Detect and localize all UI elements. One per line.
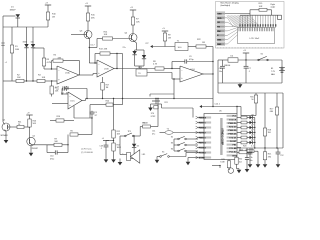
wire U2 out	[117, 68, 155, 70]
capacitor C18 .1	[104, 144, 109, 146]
resistor R27 56K	[54, 143, 62, 146]
transistor Q4 PN2222	[129, 34, 137, 42]
svg-text:102: 102	[239, 161, 242, 163]
wire gnd pin	[188, 157, 198, 159]
connector labels	[217, 12, 225, 15]
svg-text:390: 390	[268, 132, 271, 134]
LED D11	[250, 131, 253, 134]
svg-text:C6: C6	[219, 68, 221, 70]
svg-text:C5: C5	[95, 112, 97, 114]
svg-text:Right: Right	[271, 3, 276, 6]
svg-text:4.7: 4.7	[56, 89, 59, 91]
svg-text:1M: 1M	[106, 87, 109, 89]
diode D6	[135, 49, 137, 51]
svg-text:102: 102	[248, 154, 251, 156]
ground Q2	[30, 146, 32, 152]
svg-text:RXD.D0: RXD.D0	[229, 127, 237, 129]
wire U4 out	[203, 73, 213, 75]
svg-text:(2) CD4040B: (2) CD4040B	[81, 152, 93, 154]
svg-text:R29: R29	[221, 159, 224, 161]
wire	[122, 54, 124, 99]
svg-text:+1: +1	[5, 62, 7, 64]
svg-text:RW: RW	[217, 31, 220, 33]
wire U1 output	[79, 74, 93, 76]
wire Q4 emitter	[134, 41, 136, 43]
svg-text:C7: C7	[248, 68, 250, 70]
svg-text:U1.7: U1.7	[91, 44, 95, 46]
svg-text:PB6.X1: PB6.X1	[199, 137, 207, 139]
battery B1 7.2V	[281, 66, 283, 69]
transistor Q2 2N5087	[27, 137, 35, 145]
svg-text:R21: R21	[165, 102, 168, 104]
capacitor C4 .01	[66, 86, 68, 87]
LED D10	[250, 126, 253, 129]
svg-text:1N34: 1N34	[23, 42, 27, 44]
resistor R12 10K	[113, 99, 115, 131]
power +9	[130, 9, 136, 11]
wire Q3 emitter	[88, 38, 90, 63]
wire	[147, 72, 172, 74]
svg-text:C12: C12	[280, 155, 283, 157]
resistor R21 390	[264, 148, 266, 152]
resistor LED row 6	[241, 141, 247, 144]
power +9	[85, 5, 91, 7]
resistor LED row 5	[241, 136, 247, 139]
svg-text:R20: R20	[243, 146, 246, 148]
svg-text:4.7M: 4.7M	[47, 62, 52, 64]
wire	[2, 16, 4, 27]
svg-text:.1: .1	[248, 71, 250, 73]
transistor Q3 PN2222	[84, 31, 92, 39]
svg-text:T6: T6	[138, 73, 140, 75]
svg-text:U1:A: U1:A	[65, 72, 70, 75]
ground	[237, 168, 240, 170]
crystal Y1 box	[175, 43, 188, 51]
resistor R17 680	[276, 93, 278, 107]
dashed bottom	[217, 47, 283, 49]
svg-text:VO: VO	[217, 22, 220, 24]
capacitor C13 4.7	[62, 93, 68, 95]
svg-text:R15: R15	[250, 96, 253, 98]
svg-text:680: 680	[270, 111, 273, 113]
svg-text:MPSA18: MPSA18	[1, 134, 8, 137]
resistor R20 5.1	[240, 150, 246, 152]
svg-text:U1:B: U1:B	[104, 68, 109, 70]
wire +5 rail	[217, 83, 219, 93]
wire	[34, 144, 55, 146]
ground	[105, 158, 107, 159]
wire U3 bottom	[73, 106, 75, 118]
svg-text:AGND: AGND	[199, 156, 206, 159]
resistor R1 10M	[11, 27, 13, 45]
resistor R10 1M	[46, 12, 49, 20]
svg-text:R13: R13	[117, 144, 120, 146]
power +9 tap	[243, 52, 249, 54]
transistor Q1 MPSA18	[2, 123, 10, 131]
transistor Q5	[228, 168, 233, 173]
svg-text:1M: 1M	[202, 42, 205, 44]
svg-text:R24: R24	[106, 101, 109, 103]
ribbon cable hatch	[227, 15, 237, 26]
svg-text:S3: S3	[171, 142, 173, 144]
resistor R17 1M vertical	[102, 77, 104, 83]
GM tube sensor	[2, 27, 4, 81]
svg-text:(backlight): (backlight)	[221, 4, 231, 7]
wire to MCU	[162, 107, 194, 109]
svg-text:2N5087: 2N5087	[32, 148, 38, 150]
svg-text:R23: R23	[239, 149, 242, 151]
svg-text:10u: 10u	[219, 71, 222, 73]
svg-text:B1: B1	[271, 68, 273, 70]
svg-text:+: +	[122, 153, 123, 155]
resistor R24 10K	[90, 104, 106, 106]
svg-text:1M: 1M	[168, 37, 171, 39]
capacitor C5 4.7	[91, 111, 93, 112]
svg-text:470u: 470u	[50, 159, 54, 161]
svg-text:10R: 10R	[259, 6, 263, 8]
wire pin header rail	[240, 14, 282, 16]
svg-text:D2.INT: D2.INT	[230, 141, 237, 143]
svg-text:R17: R17	[270, 108, 273, 110]
svg-text:PC2.A2: PC2.A2	[229, 147, 237, 150]
op-amp U1:C	[68, 92, 82, 109]
LED D9	[250, 121, 253, 124]
resistor R9 1M	[163, 33, 166, 41]
svg-text:VDD: VDD	[217, 18, 222, 20]
svg-text:PC1/A1: PC1/A1	[199, 151, 207, 154]
svg-text:C27: C27	[145, 43, 148, 45]
power tap	[155, 98, 156, 99]
svg-text:R2 1K: R2 1K	[143, 123, 149, 125]
svg-text:New Haven Display: New Haven Display	[221, 2, 240, 4]
svg-text:390: 390	[268, 156, 271, 158]
resistor R28	[70, 133, 78, 136]
wire bottom rail	[234, 147, 283, 149]
svg-text:angle: angle	[271, 6, 276, 8]
svg-text:100K: 100K	[117, 147, 122, 149]
switch S1	[258, 59, 260, 61]
resistor R22 1M	[188, 46, 196, 48]
wire	[172, 78, 180, 80]
svg-text:TP1: TP1	[128, 131, 131, 133]
svg-text:R17: R17	[106, 84, 109, 86]
svg-text:C13: C13	[55, 86, 58, 88]
wire U3 out long rail	[82, 100, 86, 102]
wire U3 +in	[52, 102, 68, 104]
power +9	[26, 114, 32, 116]
LCD module enclosure	[216, 2, 285, 49]
svg-text:Q2: Q2	[32, 136, 35, 138]
svg-text:PWM.D5: PWM.D5	[228, 130, 237, 132]
resistor R16	[50, 120, 56, 122]
LCD 16x2 module	[238, 28, 275, 44]
svg-text:8.2M: 8.2M	[220, 162, 224, 164]
svg-text:R30: R30	[239, 159, 242, 161]
svg-text:R16: R16	[57, 116, 60, 118]
op-amp U1:B	[97, 60, 114, 77]
resistor LED row 4	[241, 131, 247, 134]
svg-text:(1) FL91-4a: (1) FL91-4a	[81, 149, 92, 151]
power +9 rail top-left	[45, 4, 51, 6]
svg-text:K7R2: K7R2	[151, 116, 156, 118]
resistor R30 102	[236, 155, 238, 157]
wire	[169, 156, 186, 158]
wire	[2, 81, 4, 122]
svg-text:PD5.T1: PD5.T1	[199, 122, 207, 124]
svg-text:.1: .1	[100, 148, 102, 150]
ground	[113, 158, 115, 159]
svg-text:X76: X76	[151, 113, 154, 115]
svg-text:1M: 1M	[52, 17, 55, 19]
LED D12	[250, 136, 253, 139]
svg-text:4AH: 4AH	[271, 73, 275, 76]
svg-text:PB0/D8: PB0/D8	[199, 117, 207, 119]
svg-text:C11: C11	[152, 131, 155, 133]
feedback resistor R5 43K	[51, 61, 53, 69]
capacitor C20	[246, 148, 248, 158]
svg-text:LCD 16x2: LCD 16x2	[250, 38, 261, 40]
svg-text:U1:C: U1:C	[70, 101, 75, 103]
svg-text:VCC: VCC	[232, 116, 237, 118]
wire	[120, 135, 125, 137]
wire	[282, 93, 284, 148]
svg-text:GND: GND	[217, 13, 222, 15]
op-amp U1:A	[57, 66, 79, 84]
svg-text:56: 56	[251, 99, 253, 101]
svg-text:PWM.D6: PWM.D6	[228, 134, 237, 136]
LCD pin wires	[239, 15, 241, 28]
ground	[156, 159, 158, 160]
svg-text:PC0/A0: PC0/A0	[199, 146, 207, 149]
capacitor C6 10u	[222, 60, 224, 66]
svg-text:1N34P: 1N34P	[10, 9, 17, 11]
wire bracket	[151, 103, 162, 105]
svg-text:5.1: 5.1	[251, 146, 254, 148]
svg-text:C10: C10	[50, 156, 53, 158]
resistor R3 4.7M	[43, 48, 45, 58]
resistor R18 390	[264, 93, 266, 128]
jack J1	[139, 127, 141, 137]
wire	[219, 165, 220, 166]
wire lower bus	[3, 80, 16, 82]
resistor R7 10K	[131, 17, 134, 25]
wire bus	[3, 26, 48, 28]
LED D8	[250, 116, 253, 119]
resistor LED row 1	[241, 116, 247, 119]
resistor R8 4.7K	[155, 67, 164, 70]
svg-text:R5: R5	[70, 131, 72, 133]
svg-text:R12: R12	[117, 131, 120, 133]
feedback resistor R13 40K	[95, 62, 97, 64]
resistor R6 10K	[51, 81, 53, 86]
resistor LED row 3	[241, 126, 247, 129]
wire GND row	[225, 13, 250, 15]
LED D13	[250, 141, 253, 144]
svg-text:S2: S2	[171, 136, 173, 138]
wire	[44, 68, 57, 70]
wire button common	[173, 139, 175, 151]
svg-text:R26: R26	[33, 120, 36, 122]
svg-text:PD7/A7: PD7/A7	[199, 131, 207, 134]
svg-text:47u: 47u	[152, 134, 155, 136]
speaker LS1	[120, 154, 127, 156]
svg-text:C14 .1: C14 .1	[215, 104, 221, 106]
capacitor C10 470u	[47, 144, 54, 146]
capacitor C7 .1	[245, 60, 247, 66]
regulator box	[135, 65, 144, 67]
capacitor C19	[249, 148, 251, 152]
capacitor C12 47u	[277, 148, 279, 152]
resistor R22 audio	[143, 125, 151, 128]
svg-text:R18: R18	[268, 129, 271, 131]
resistor R4 10K	[37, 79, 45, 82]
svg-text:PB7.X2: PB7.X2	[199, 142, 207, 144]
svg-text:ATMEGA328P: ATMEGA328P	[221, 128, 225, 145]
svg-text:4.7: 4.7	[95, 115, 98, 117]
wire emitter	[5, 130, 6, 132]
diode D7	[137, 49, 145, 51]
ground	[187, 161, 189, 162]
svg-text:Y2: Y2	[167, 129, 169, 131]
svg-text:TXD.D1: TXD.D1	[229, 137, 237, 139]
resistor R26 50K	[28, 119, 31, 127]
diode D3 1N34	[32, 27, 34, 44]
ground	[119, 159, 121, 161]
svg-text:100: 100	[31, 42, 34, 44]
svg-text:S4: S4	[171, 148, 173, 150]
resistor R16 56	[255, 93, 257, 95]
net arrow reset	[199, 105, 202, 108]
resistor R23 10K	[237, 151, 239, 153]
resistor R11 2K	[17, 125, 24, 128]
svg-text:10M: 10M	[15, 49, 19, 51]
ground	[239, 83, 241, 84]
power +5	[162, 30, 168, 32]
svg-text:1Bu: 1Bu	[249, 160, 252, 162]
svg-text:27u: 27u	[123, 47, 126, 49]
resistor LED row 2	[241, 121, 247, 124]
diode D2 1N34	[26, 27, 28, 44]
svg-text:U1:D: U1:D	[191, 69, 196, 71]
svg-text:1N4004: 1N4004	[224, 65, 230, 67]
wire	[67, 135, 69, 145]
diode D5	[133, 135, 134, 136]
diode D4	[228, 58, 238, 62]
svg-text:R21: R21	[268, 154, 271, 156]
svg-text:D5: D5	[137, 146, 139, 148]
svg-text:C18: C18	[99, 145, 102, 147]
svg-text:PD6/A6: PD6/A6	[199, 126, 207, 129]
resistor R2 10K	[16, 79, 24, 82]
capacitor C9 470p	[171, 62, 173, 69]
resistor R15 43K	[86, 13, 89, 21]
ground	[5, 139, 7, 140]
op-amp U1:D	[180, 66, 203, 82]
crystal X1	[154, 106, 158, 109]
wire	[257, 151, 259, 163]
resistor R13 100K	[112, 143, 115, 151]
wire LED common	[254, 118, 256, 149]
svg-text:4.7K: 4.7K	[153, 64, 158, 66]
power supply loop	[218, 59, 228, 61]
ground	[148, 108, 153, 112]
svg-text:PC3.A3: PC3.A3	[229, 151, 237, 154]
svg-text:D13.CK: D13.CK	[229, 119, 237, 121]
svg-text:S5: S5	[162, 151, 164, 153]
svg-text:PWM.D3: PWM.D3	[228, 123, 237, 125]
